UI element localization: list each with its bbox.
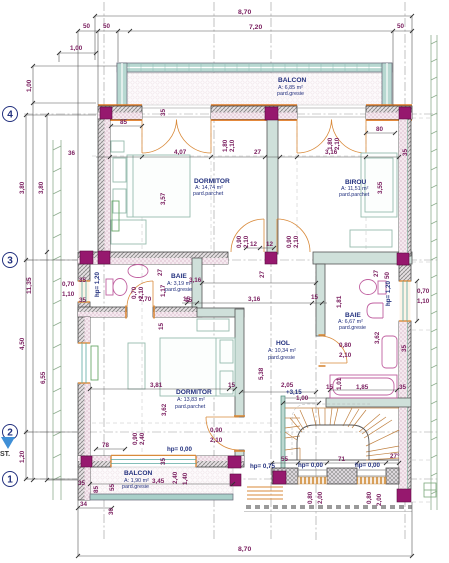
eave dashed comb	[246, 505, 412, 509]
svg-text:hp= 0,00: hp= 0,00	[167, 446, 192, 453]
window bathroom1 west	[78, 281, 90, 302]
svg-text:hp= 0,00: hp= 0,00	[355, 462, 380, 469]
dim 78	[96, 448, 125, 450]
bathroom1 east plumbing wall	[192, 258, 202, 317]
column S-center lower	[230, 474, 241, 486]
door hall to dormitor1	[231, 219, 264, 252]
svg-text:5,38: 5,38	[258, 367, 265, 380]
svg-text:DORMITOR: DORMITOR	[194, 178, 230, 185]
grid axis 3 horizontal	[24, 259, 440, 261]
dormitor2 east partition	[235, 309, 244, 417]
dim line total top 8.70	[95, 15, 412, 17]
grid axis 2 horizontal	[24, 431, 440, 433]
west wall upper	[98, 119, 110, 252]
svg-text:3,80: 3,80	[19, 181, 26, 194]
hol/bath2 partition	[316, 264, 325, 336]
svg-text:pard.gresie: pard.gresie	[277, 91, 304, 97]
svg-text:35: 35	[399, 384, 407, 391]
svg-text:pard.parchet: pard.parchet	[339, 192, 370, 198]
svg-text:2,10: 2,10	[334, 137, 341, 150]
dim line top 7.20 row	[78, 30, 412, 32]
svg-text:pard.gresie: pard.gresie	[165, 287, 192, 293]
svg-text:pard.parchet: pard.parchet	[175, 404, 206, 410]
south stair pier 3	[386, 468, 399, 484]
svg-text:4,07: 4,07	[174, 149, 187, 156]
svg-text:15: 15	[183, 296, 191, 303]
svg-text:2,10: 2,10	[138, 286, 145, 299]
svg-text:35: 35	[160, 457, 167, 465]
svg-text:BAIE: BAIE	[345, 312, 361, 319]
door hol to bath2	[319, 335, 348, 366]
svg-text:35: 35	[79, 277, 87, 284]
svg-text:2,10: 2,10	[339, 352, 352, 359]
dim hall width at bath level	[202, 282, 316, 284]
left dim line 11.35	[32, 66, 34, 480]
svg-text:27: 27	[373, 269, 380, 277]
svg-text:DORMITOR: DORMITOR	[176, 389, 212, 396]
projection dashed lines light	[92, 118, 431, 502]
column S-center upper	[228, 456, 241, 468]
svg-text:1,00: 1,00	[26, 79, 33, 92]
svg-text:27: 27	[157, 268, 164, 276]
balcony parapet left	[117, 63, 127, 106]
dim line top 1.00	[59, 52, 96, 54]
svg-text:7,20: 7,20	[249, 24, 262, 31]
sink bath2	[367, 303, 383, 318]
svg-text:BAIE: BAIE	[171, 273, 187, 280]
svg-text:1,81: 1,81	[336, 295, 343, 308]
svg-text:3,16: 3,16	[189, 277, 202, 284]
section marker triangle	[1, 437, 15, 449]
dim row y157	[96, 156, 399, 158]
window dormitor2 west	[78, 343, 90, 383]
column N-center	[265, 107, 278, 120]
grid bubble 4	[3, 107, 18, 487]
vertical axis west	[103, 2, 105, 540]
svg-text:BIROU: BIROU	[345, 179, 366, 186]
svg-text:3,45: 3,45	[152, 478, 165, 485]
svg-text:3,57: 3,57	[160, 192, 167, 205]
south wall dormitor2 pierE	[196, 456, 244, 467]
dim 3.45 balcon2	[90, 483, 233, 485]
door to bathroom1	[126, 281, 154, 319]
vertical axis center	[213, 2, 215, 540]
grid axis 1 horizontal	[24, 478, 440, 480]
stair outer boundary	[285, 397, 326, 399]
svg-text:1: 1	[7, 475, 13, 486]
svg-text:0,90: 0,90	[132, 432, 139, 445]
svg-text:2: 2	[7, 428, 13, 439]
column stair SE	[397, 489, 411, 502]
entry steps	[247, 487, 283, 499]
svg-text:pard.parchet: pard.parchet	[193, 191, 224, 197]
svg-text:27: 27	[254, 149, 262, 156]
bath2 south wall	[326, 398, 411, 407]
window bath2 east	[399, 281, 411, 321]
door hall to birou	[277, 219, 310, 252]
window dormitor2 south	[111, 455, 196, 467]
column NE	[399, 107, 411, 119]
svg-text:50: 50	[384, 271, 391, 279]
svg-text:HOL: HOL	[276, 340, 290, 347]
svg-text:2,40: 2,40	[139, 432, 146, 445]
balcony north floor	[127, 73, 382, 105]
svg-text:3,80: 3,80	[38, 181, 45, 194]
balcony2 west wall	[78, 467, 90, 500]
svg-text:A: 13,83 m²: A: 13,83 m²	[177, 397, 205, 403]
svg-text:80: 80	[376, 126, 384, 133]
south stair pier 1	[272, 468, 298, 484]
svg-text:0,70: 0,70	[417, 288, 430, 295]
svg-text:8,70: 8,70	[238, 546, 251, 553]
svg-text:2,00: 2,00	[317, 491, 324, 504]
dim 3.81 dormitor2	[90, 388, 235, 390]
svg-text:0,90: 0,90	[210, 427, 223, 434]
svg-text:27°: 27°	[390, 452, 400, 460]
svg-text:27: 27	[259, 270, 266, 278]
svg-text:0,70: 0,70	[62, 281, 75, 288]
shelf dormitor2 NE	[197, 319, 229, 331]
stair treads	[285, 408, 399, 460]
balcony french door birou	[297, 119, 366, 153]
east boundary tick band	[431, 35, 437, 510]
stair walk line arrow	[292, 404, 370, 455]
sill lines stair windows	[298, 470, 386, 476]
svg-text:0,80: 0,80	[307, 491, 314, 504]
bed dormitor1	[127, 155, 190, 217]
left dim line inner	[46, 115, 48, 480]
middle wall west hatch	[78, 252, 228, 264]
svg-text:1,80: 1,80	[222, 139, 229, 152]
svg-text:12: 12	[250, 241, 258, 248]
svg-text:BALCON: BALCON	[278, 77, 306, 84]
north wall segment E	[366, 106, 412, 119]
dim row stair south	[272, 462, 399, 464]
column mid-east	[397, 253, 409, 265]
grid axis 4 horizontal	[24, 113, 440, 115]
balcony parapet right	[382, 63, 392, 106]
svg-text:35: 35	[78, 480, 86, 487]
svg-text:3,81: 3,81	[150, 382, 163, 389]
svg-text:11,35: 11,35	[26, 277, 33, 294]
south wall dormitor2 pierW	[78, 456, 111, 467]
dim 80 birou	[366, 132, 395, 134]
sill combs stair windows	[298, 477, 327, 484]
balcony parapet top	[117, 63, 392, 72]
dim row hall y303	[182, 302, 327, 304]
central partition dormitor/birou	[267, 119, 278, 254]
partition stub south	[235, 450, 244, 456]
svg-text:55: 55	[109, 483, 116, 491]
svg-text:8,70: 8,70	[238, 9, 251, 16]
svg-text:2,10: 2,10	[243, 235, 250, 248]
balcony french door dormitor1	[142, 119, 211, 153]
svg-text:85: 85	[93, 485, 100, 493]
east wall mid	[399, 265, 411, 281]
north wall insulation line	[98, 105, 412, 120]
table birou	[350, 230, 392, 247]
svg-text:hp= 1,20: hp= 1,20	[385, 281, 392, 306]
east wall upper	[399, 119, 411, 256]
north wall segment W	[98, 106, 142, 119]
svg-text:3,62: 3,62	[161, 403, 168, 416]
svg-text:36: 36	[68, 150, 76, 157]
svg-text:1,80: 1,80	[327, 137, 334, 150]
svg-text:6,55: 6,55	[40, 371, 47, 384]
svg-text:0,70: 0,70	[131, 286, 138, 299]
svg-text:85: 85	[120, 119, 128, 126]
svg-text:78: 78	[102, 442, 110, 449]
vertical axis east	[404, 2, 406, 540]
sink bathroom1	[128, 265, 148, 278]
wardrobe dormitor1	[111, 220, 146, 244]
door hol to dormitor2	[206, 416, 245, 451]
dim 2.05 hol	[241, 391, 316, 393]
svg-text:pard.gresie: pard.gresie	[122, 484, 149, 490]
bottom dim line 8.70	[78, 555, 412, 557]
bathroom1 west wall	[78, 264, 90, 281]
dormitor2 north wall teal	[197, 308, 244, 317]
north wall segment C	[211, 106, 297, 119]
bathroom1 south wall w	[78, 307, 127, 317]
column mid-west inner	[98, 251, 110, 264]
middle wall east teal	[313, 252, 412, 264]
svg-text:0,80: 0,80	[339, 342, 352, 349]
radiator dormitor2	[91, 346, 98, 380]
dim 34	[78, 507, 112, 509]
svg-text:2,10: 2,10	[293, 235, 300, 248]
column SW	[81, 456, 92, 467]
svg-text:3,16: 3,16	[248, 296, 261, 303]
balcony south floor	[90, 467, 233, 495]
svg-text:ST.: ST.	[0, 451, 10, 458]
svg-text:2,00: 2,00	[376, 493, 383, 506]
svg-text:pard.gresie: pard.gresie	[268, 355, 295, 361]
svg-text:1,00: 1,00	[296, 395, 309, 402]
svg-text:1,10: 1,10	[417, 298, 430, 305]
desk birou	[361, 153, 397, 217]
svg-text:3,55: 3,55	[377, 181, 384, 194]
dresser dormitor2	[128, 343, 145, 389]
column mid-west outer	[80, 251, 93, 264]
svg-text:50: 50	[103, 23, 111, 30]
svg-text:BALCON: BALCON	[124, 470, 152, 477]
svg-text:15: 15	[158, 322, 165, 330]
column mid-center	[265, 252, 277, 264]
south stair pier 2	[327, 468, 357, 484]
svg-text:pard.gresie: pard.gresie	[339, 325, 366, 331]
svg-text:34: 34	[80, 501, 88, 508]
svg-text:hp= 0,75: hp= 0,75	[250, 463, 275, 470]
dim 1.00 stair	[283, 402, 319, 404]
svg-text:30: 30	[108, 507, 115, 515]
west wall lower	[78, 317, 90, 343]
svg-text:55: 55	[281, 456, 289, 463]
svg-text:50: 50	[397, 23, 405, 30]
svg-text:0,90: 0,90	[286, 235, 293, 248]
svg-text:hp= 0,00: hp= 0,00	[298, 462, 323, 469]
svg-text:0,80: 0,80	[366, 491, 373, 504]
dim 85 north	[111, 125, 142, 127]
svg-text:2,05: 2,05	[281, 382, 294, 389]
toilet bathroom1	[106, 279, 127, 296]
dim 1.85 bath2	[330, 389, 397, 391]
vertical axis stair	[315, 260, 317, 540]
svg-text:15: 15	[228, 382, 236, 389]
svg-text:1,85: 1,85	[356, 384, 369, 391]
svg-text:3,62: 3,62	[374, 331, 381, 344]
svg-text:hp= 1,20: hp= 1,20	[94, 272, 101, 297]
nightstand dormitor1 top	[111, 141, 124, 152]
svg-text:1,40: 1,40	[182, 472, 189, 485]
svg-text:50: 50	[83, 23, 91, 30]
stair west edge	[281, 396, 285, 476]
svg-text:4,50: 4,50	[19, 337, 26, 350]
svg-text:2,40: 2,40	[172, 471, 179, 484]
svg-text:2,10: 2,10	[210, 437, 223, 444]
west green fence band	[53, 140, 61, 500]
east wall lower	[399, 321, 411, 489]
svg-text:1,01: 1,01	[336, 377, 343, 390]
svg-text:1,10: 1,10	[62, 291, 75, 298]
shower tray bath2	[382, 336, 397, 368]
svg-text:35: 35	[160, 108, 167, 116]
bathroom1 south wall e	[153, 307, 197, 317]
dim east window	[416, 281, 418, 321]
svg-text:35: 35	[79, 297, 87, 304]
svg-text:4: 4	[7, 110, 13, 121]
svg-text:A: 10,34 m²: A: 10,34 m²	[268, 348, 296, 354]
vertical axis mid-east	[270, 2, 272, 540]
left dim line outer	[25, 115, 27, 479]
stair inner eye	[297, 425, 369, 460]
svg-text:35: 35	[402, 148, 409, 156]
balcony2 south band	[90, 494, 233, 500]
radiator dormitor1	[112, 201, 119, 231]
svg-text:1,20: 1,20	[19, 450, 26, 463]
toilet bath2	[360, 280, 387, 295]
svg-text:12: 12	[266, 241, 274, 248]
column stair SW	[273, 471, 286, 484]
svg-text:2,10: 2,10	[229, 139, 236, 152]
svg-text:1,00: 1,00	[70, 45, 83, 52]
svg-text:3: 3	[7, 256, 13, 267]
svg-text:0,90: 0,90	[236, 235, 243, 248]
svg-text:71: 71	[338, 456, 346, 463]
bathtub bath2	[330, 375, 397, 398]
svg-text:15: 15	[311, 294, 319, 301]
column NW	[100, 107, 112, 119]
svg-text:15: 15	[326, 384, 334, 391]
bed dormitor2	[160, 338, 235, 396]
green utility box east	[424, 483, 436, 497]
svg-text:35: 35	[401, 344, 408, 352]
dim 12-12	[246, 247, 274, 249]
svg-text:1,17: 1,17	[160, 284, 167, 297]
